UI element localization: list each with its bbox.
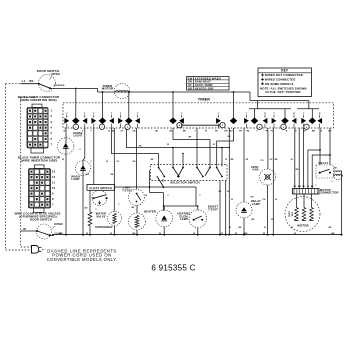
svg-text:W: W xyxy=(62,159,64,161)
svg-text:W: W xyxy=(263,233,265,235)
svg-text:W: W xyxy=(231,199,233,201)
svg-text:W: W xyxy=(159,233,161,235)
svg-text:CONNECTOR: CONNECTOR xyxy=(320,191,339,195)
svg-text:DISPENSER: DISPENSER xyxy=(95,225,112,229)
svg-text:HEATED DRY: HEATED DRY xyxy=(195,86,214,90)
svg-text:OPEN: OPEN xyxy=(51,72,60,76)
svg-text:6 915355 C: 6 915355 C xyxy=(151,264,195,273)
svg-text:W: W xyxy=(59,233,61,235)
svg-text:W: W xyxy=(307,186,309,188)
svg-text:W: W xyxy=(86,233,88,235)
svg-text:(WIRE INSERTION SIDE): (WIRE INSERTION SIDE) xyxy=(20,98,57,102)
svg-text:LAMP: LAMP xyxy=(71,177,79,181)
svg-text:W: W xyxy=(193,233,195,235)
svg-text:W: W xyxy=(167,144,169,146)
svg-text:LIGHT: LIGHT xyxy=(74,134,83,138)
svg-text:LAMP: LAMP xyxy=(252,202,260,206)
svg-text:START: START xyxy=(288,210,291,217)
svg-text:SELECTOR SWITCH: SELECTOR SWITCH xyxy=(170,181,199,185)
svg-text:W: W xyxy=(23,227,26,231)
svg-text:W: W xyxy=(221,233,223,235)
svg-text:HEATER: HEATER xyxy=(144,210,156,214)
svg-text:W: W xyxy=(110,233,112,235)
svg-text:W: W xyxy=(205,131,207,133)
svg-text:OPEN: OPEN xyxy=(54,222,62,226)
svg-text:DOOR SWITCH: DOOR SWITCH xyxy=(30,218,52,222)
svg-text:LAMP: LAMP xyxy=(180,217,188,221)
svg-text:L1: L1 xyxy=(22,79,26,83)
svg-text:FLOAT SWITCH: FLOAT SWITCH xyxy=(90,186,112,190)
svg-text:ON SOME MODELS: ON SOME MODELS xyxy=(265,82,294,86)
svg-text:W: W xyxy=(225,159,227,161)
svg-text:W: W xyxy=(108,131,110,133)
svg-text:W: W xyxy=(229,227,231,229)
svg-text:T'STAT: T'STAT xyxy=(122,188,132,192)
svg-text:KEY: KEY xyxy=(281,69,289,73)
svg-text:IN THE 'OFF' POSITION: IN THE 'OFF' POSITION xyxy=(266,90,301,94)
svg-text:10: 10 xyxy=(52,186,56,190)
svg-text:11: 11 xyxy=(52,181,55,185)
svg-text:12: 12 xyxy=(52,175,56,179)
svg-text:FAN: FAN xyxy=(253,168,259,172)
svg-text:WDG: WDG xyxy=(292,211,294,216)
svg-text:MOTOR: MOTOR xyxy=(102,87,114,91)
svg-text:W: W xyxy=(227,191,229,193)
svg-text:BK: BK xyxy=(29,79,34,83)
svg-text:W: W xyxy=(145,195,147,197)
svg-text:W: W xyxy=(213,144,215,146)
svg-text:W: W xyxy=(266,131,268,133)
svg-text:CONVERTIBLE MODELS ONLY.: CONVERTIBLE MODELS ONLY. xyxy=(47,257,118,262)
svg-text:W: W xyxy=(106,161,108,163)
svg-text:6: 6 xyxy=(306,127,307,129)
svg-text:HD: HD xyxy=(188,86,192,90)
svg-text:13: 13 xyxy=(52,170,56,174)
svg-text:W: W xyxy=(275,199,277,201)
svg-text:T'STAT: T'STAT xyxy=(208,207,218,211)
svg-text:VALVE: VALVE xyxy=(96,214,106,218)
svg-text:5: 5 xyxy=(222,125,223,127)
svg-text:W: W xyxy=(294,233,296,235)
svg-text:(WIRE INSERTION SIDE): (WIRE INSERTION SIDE) xyxy=(21,158,58,162)
svg-text:SOLENOID: SOLENOID xyxy=(54,85,65,87)
svg-text:TIMER: TIMER xyxy=(198,98,210,102)
svg-text:MOTOR: MOTOR xyxy=(297,224,309,228)
svg-text:W: W xyxy=(235,233,237,235)
svg-text:5: 5 xyxy=(283,127,284,129)
svg-text:3: 3 xyxy=(127,127,128,129)
svg-text:W: W xyxy=(271,219,273,221)
svg-text:2: 2 xyxy=(101,127,102,129)
svg-text:1: 1 xyxy=(75,127,76,129)
svg-text:WIRES NOT CONNECTED: WIRES NOT CONNECTED xyxy=(265,73,303,77)
svg-text:W: W xyxy=(64,131,66,133)
svg-text:W: W xyxy=(264,227,266,229)
